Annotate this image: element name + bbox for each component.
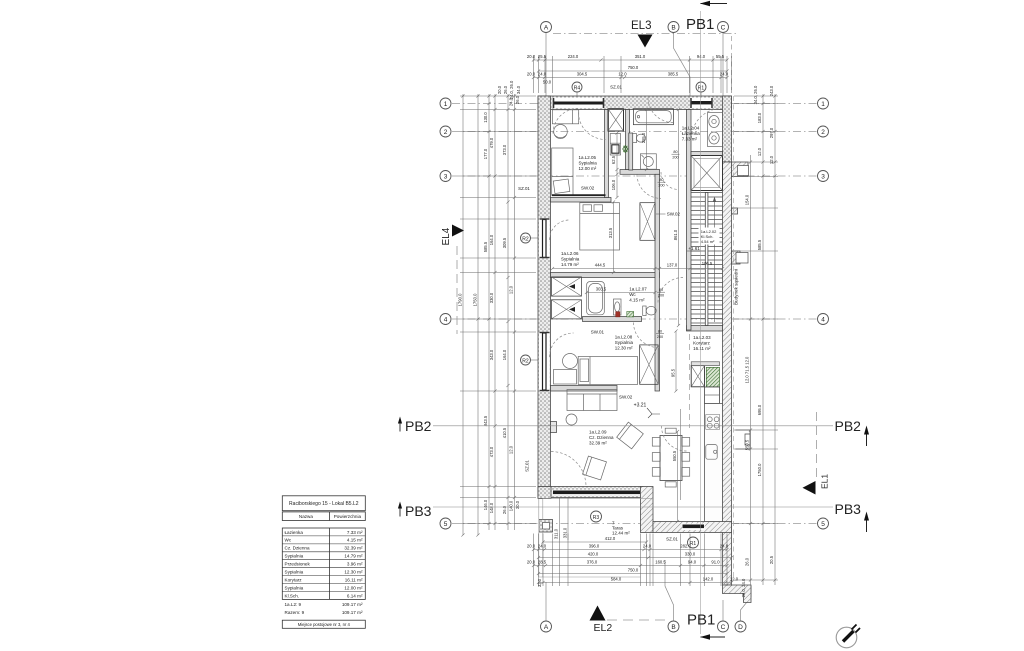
window top W (bedroom05) [553, 98, 605, 109]
svg-text:55.5: 55.5 [716, 54, 725, 59]
svg-text:351.0: 351.0 [635, 54, 646, 59]
svg-text:26.0: 26.0 [515, 95, 520, 104]
svg-text:164.0: 164.0 [502, 349, 507, 360]
axis row 1 line [452, 103, 817, 105]
elevator shaft [691, 156, 723, 191]
basin bathroom 2 [709, 132, 719, 144]
svg-text:C: C [721, 24, 726, 31]
svg-text:Kl.Sch.: Kl.Sch. [285, 593, 300, 598]
dim chain bottom 2 [534, 549, 728, 551]
svg-text:7.33 m²: 7.33 m² [347, 530, 363, 535]
section line PB1 [700, 11, 702, 634]
window swing R2a [550, 220, 570, 240]
window left R2 #1 [539, 219, 550, 259]
svg-text:1a.L2.08: 1a.L2.08 [615, 335, 633, 340]
svg-text:62.5: 62.5 [611, 155, 616, 164]
leader col C bottom [722, 600, 724, 621]
bubble col D bottom [735, 621, 746, 632]
bubble col B top [668, 22, 679, 33]
LABELS [561, 126, 720, 536]
leader col A top [545, 33, 547, 97]
svg-text:3.96 m²: 3.96 m² [347, 562, 363, 567]
svg-text:5: 5 [444, 521, 448, 528]
svg-text:PB1: PB1 [686, 16, 714, 33]
svg-text:148.0: 148.0 [489, 502, 494, 513]
WALLS [538, 96, 751, 603]
washbasin wc [614, 299, 622, 315]
svg-text:154.0: 154.0 [745, 194, 750, 205]
svg-text:95.5: 95.5 [670, 368, 675, 377]
svg-text:142.0: 142.0 [703, 577, 714, 582]
svg-text:695.0: 695.0 [757, 404, 762, 415]
svg-text:20.0: 20.0 [527, 544, 536, 549]
axis EL2 dashed [607, 619, 666, 621]
svg-text:R1: R1 [698, 85, 705, 91]
table title box [282, 496, 365, 511]
svg-text:PB3: PB3 [405, 503, 432, 519]
svg-text:200: 200 [657, 335, 663, 339]
armchair 1 [617, 422, 644, 449]
dim chain top 3 [534, 77, 728, 79]
interior walls [551, 110, 723, 392]
dim chain left A [462, 94, 464, 535]
door arc living [662, 426, 687, 451]
bed05 desk [552, 110, 578, 124]
svg-text:550.5: 550.5 [745, 439, 750, 450]
dining chair bottom [665, 482, 676, 487]
svg-text:EL1: EL1 [820, 474, 830, 489]
svg-text:14.79 m²: 14.79 m² [344, 554, 363, 559]
window swing living [551, 452, 586, 487]
svg-text:25.5: 25.5 [538, 54, 547, 59]
bubble col C top [718, 22, 729, 33]
dim 550.5 line [677, 432, 679, 522]
dim 444.5 line [553, 268, 723, 270]
window top R1 (bathroom) [691, 98, 714, 109]
svg-text:20.0: 20.0 [527, 54, 536, 59]
wardrobe SW01 top [551, 277, 581, 296]
bed05 bed [552, 148, 573, 195]
svg-text:376.0: 376.0 [587, 560, 598, 565]
kitchen fridge box [705, 387, 720, 404]
svg-text:410.5: 410.5 [502, 427, 507, 438]
exterior right wall lower (neighbour side) [723, 162, 732, 585]
door arc bed08 [634, 323, 659, 348]
dim 95.5 line [675, 331, 677, 391]
wall stairwell vertical [687, 110, 692, 331]
bubble R4 top [572, 82, 582, 92]
svg-text:1a.L2.07: 1a.L2.07 [629, 287, 647, 292]
window swing bathroom R1 [692, 109, 722, 139]
svg-text:4: 4 [444, 316, 448, 323]
svg-text:B: B [671, 624, 675, 631]
leader col D bottom [741, 586, 752, 621]
kitchenette unit [610, 134, 620, 156]
svg-text:C: C [721, 624, 726, 631]
svg-text:1a.L2.04: 1a.L2.04 [682, 126, 700, 131]
svg-text:303.5: 303.5 [596, 287, 607, 292]
svg-text:32.39 m²: 32.39 m² [589, 441, 607, 446]
svg-text:80: 80 [659, 288, 663, 292]
svg-text:1a.L2.06: 1a.L2.06 [561, 251, 579, 256]
svg-text:Łazienka: Łazienka [682, 131, 701, 136]
bubble R2 window2 [521, 355, 531, 365]
svg-text:309.5: 309.5 [502, 237, 507, 248]
plant hall [623, 145, 628, 152]
svg-text:479.0: 479.0 [489, 137, 494, 148]
dim chain right B [762, 94, 764, 585]
closet corridor X [691, 366, 704, 387]
leader col B top [674, 33, 691, 97]
FURNITURE [551, 109, 722, 522]
svg-text:137.0: 137.0 [667, 263, 678, 268]
terrace slab outline [539, 498, 653, 577]
dining chair top [665, 428, 676, 433]
svg-text:A: A [544, 624, 549, 631]
svg-text:Sypialnia: Sypialnia [579, 161, 598, 166]
svg-text:EL4: EL4 [441, 227, 452, 245]
svg-text:330.0: 330.0 [685, 552, 696, 557]
wardrobe front bed05 [552, 194, 606, 196]
radiator green [627, 312, 634, 317]
svg-text:Powierzchnia: Powierzchnia [334, 514, 362, 519]
svg-text:1a.L2: 9: 1a.L2: 9 [285, 602, 302, 607]
svg-text:2: 2 [821, 129, 825, 136]
dim chain top 1 [534, 59, 728, 61]
svg-text:16.11 m²: 16.11 m² [345, 577, 363, 582]
leader R2a [531, 237, 543, 239]
svg-text:R2: R2 [522, 236, 529, 242]
svg-text:160.5: 160.5 [655, 560, 666, 565]
dim chain bottom 3 [539, 557, 732, 559]
svg-text:Miejsce postojowe nr 3, nr 4: Miejsce postojowe nr 3, nr 4 [298, 622, 351, 627]
svg-text:Sypialnia: Sypialnia [285, 554, 304, 559]
svg-text:EL2: EL2 [594, 622, 613, 634]
sink kitchen [706, 445, 717, 460]
AXES [452, 34, 817, 621]
svg-text:1790.0: 1790.0 [458, 293, 463, 306]
svg-text:313.5: 313.5 [608, 227, 613, 238]
svg-text:109.17 m²: 109.17 m² [342, 602, 363, 607]
svg-text:1a.L2.03: 1a.L2.03 [693, 335, 711, 340]
dining chairs right [682, 438, 690, 447]
svg-text:Nazwa: Nazwa [299, 514, 313, 519]
svg-text:PB2: PB2 [405, 418, 432, 434]
svg-text:3: 3 [444, 173, 448, 180]
basin bathroom 1 [708, 113, 723, 147]
bottom-right exterior wall [653, 522, 732, 533]
dim chain left C [488, 94, 490, 530]
bed06 [580, 203, 620, 250]
svg-text:Sypialnia: Sypialnia [561, 257, 580, 262]
section line PB3 [433, 506, 833, 508]
svg-text:412.0: 412.0 [605, 536, 616, 541]
svg-text:R1: R1 [690, 541, 697, 547]
window left R2 #2 [539, 332, 550, 391]
svg-text:SZ.01: SZ.01 [518, 186, 530, 191]
svg-text:Wc: Wc [629, 292, 636, 297]
exterior top wall [538, 96, 732, 110]
neighbour wall stub 2 [732, 208, 738, 214]
svg-text:473.0: 473.0 [489, 446, 494, 457]
bubble row 2 left [440, 126, 451, 137]
svg-text:80: 80 [658, 330, 662, 334]
svg-text:12.0: 12.0 [509, 445, 514, 454]
neighbour stub 3 box [736, 253, 748, 264]
svg-text:94.0: 94.0 [688, 560, 697, 565]
axis row 2 line [452, 131, 817, 133]
washer [640, 154, 656, 169]
svg-text:1a.L2.05: 1a.L2.05 [579, 155, 597, 160]
svg-text:200: 200 [658, 294, 664, 298]
svg-text:20.0: 20.0 [527, 72, 536, 77]
neighbour stub 1 box [738, 166, 749, 176]
burners [707, 417, 712, 422]
svg-text:14.79 m²: 14.79 m² [561, 262, 579, 267]
column at terrace corner [539, 520, 553, 533]
dim chain left B [477, 94, 479, 535]
svg-text:R4: R4 [574, 85, 581, 91]
svg-text:+1.61: +1.61 [688, 246, 700, 251]
svg-text:Sypialnia: Sypialnia [615, 340, 634, 345]
bottom-left exterior wall (living room) [538, 487, 643, 498]
wardrobe bed08 [640, 345, 659, 384]
svg-text:20.5: 20.5 [769, 555, 774, 564]
door arc bathroom [661, 172, 679, 190]
svg-text:585.5: 585.5 [483, 241, 488, 252]
table data box [282, 528, 365, 599]
dim chain bottom 6 [539, 582, 732, 584]
svg-text:D: D [738, 624, 743, 631]
bed08 side table [554, 370, 577, 385]
axis row 3 line [452, 175, 817, 177]
wardrobe SW01 bottom [551, 300, 581, 319]
DOORS [550, 98, 722, 487]
svg-text:584.0: 584.0 [611, 577, 622, 582]
neighbour wall bottom corner [723, 585, 752, 603]
axis row 4 line [452, 318, 817, 320]
leader col B bottom [665, 560, 674, 621]
svg-text:26.0: 26.0 [745, 557, 750, 566]
svg-text:304.5: 304.5 [577, 72, 588, 77]
label klatka [699, 228, 720, 245]
svg-text:130.0: 130.0 [483, 112, 488, 123]
svg-text:12.0 71.5 12.0: 12.0 71.5 12.0 [745, 356, 750, 383]
svg-text:444.5: 444.5 [595, 263, 606, 268]
svg-text:861.0: 861.0 [673, 229, 678, 240]
svg-text:32.0: 32.0 [537, 578, 542, 587]
svg-text:24.0: 24.0 [643, 544, 652, 549]
leader R4 [576, 92, 578, 101]
svg-text:177.0: 177.0 [483, 148, 488, 159]
svg-text:B: B [671, 24, 675, 31]
svg-text:282.0: 282.0 [680, 544, 691, 549]
svg-text:SW.02: SW.02 [619, 395, 633, 400]
svg-text:R2: R2 [522, 358, 529, 364]
dim chain left E [507, 94, 509, 530]
wall hall/bath vertical [626, 110, 630, 170]
bubble R1 bottom [688, 537, 699, 548]
bubble R2 window1 [521, 233, 531, 243]
neighbour boundary dashed [733, 96, 735, 580]
bubble row 5 left [440, 518, 451, 529]
svg-text:12.0: 12.0 [618, 72, 627, 77]
svg-text:24.0: 24.0 [720, 544, 729, 549]
radiator red [616, 312, 620, 317]
svg-text:843.5: 843.5 [483, 415, 488, 426]
bathtub [633, 109, 673, 125]
bubble row 2 right [818, 126, 829, 137]
svg-text:224.0: 224.0 [568, 54, 579, 59]
svg-text:EL3: EL3 [631, 20, 651, 32]
svg-text:1750.0: 1750.0 [757, 463, 762, 476]
door arc entry [648, 98, 673, 123]
neighbour stub 4 box [736, 430, 751, 449]
svg-text:373.0: 373.0 [502, 144, 507, 155]
leader col A bottom [545, 582, 547, 621]
wall washer nook [629, 133, 633, 170]
svg-text:R3: R3 [593, 515, 600, 521]
svg-text:26.0, 24.0: 26.0, 24.0 [741, 578, 746, 597]
kitchen appliance green [706, 367, 719, 386]
bubble row 1 left [440, 98, 451, 109]
axis top A-B-C line [553, 33, 738, 35]
svg-text:164.0: 164.0 [489, 234, 494, 245]
svg-text:PB3: PB3 [835, 501, 862, 517]
shower wc [587, 282, 605, 315]
toilet wc [643, 306, 646, 316]
bubble row 5 right [818, 518, 829, 529]
svg-text:SW.01: SW.01 [591, 330, 605, 335]
svg-text:34.0: 34.0 [516, 85, 521, 94]
wardrobe bed06 [640, 203, 655, 241]
svg-text:183.0: 183.0 [757, 112, 762, 123]
left wall pilaster [551, 422, 557, 433]
wall hall/bed06 nook [620, 170, 660, 175]
svg-text:4.15 m²: 4.15 m² [347, 538, 363, 543]
svg-text:12.00 m²: 12.00 m² [579, 166, 597, 171]
svg-text:12.0: 12.0 [730, 577, 739, 582]
svg-text:80: 80 [673, 150, 677, 154]
top witness lines [533, 56, 535, 93]
svg-text:PB1: PB1 [687, 612, 715, 629]
neighbour wall stub 3 [732, 251, 741, 264]
svg-text:Raciborskiego 15 - Lokal B5.L2: Raciborskiego 15 - Lokal B5.L2 [289, 501, 359, 507]
stair center rail [705, 193, 708, 326]
side table round [566, 414, 577, 425]
svg-text:12.30 m²: 12.30 m² [615, 346, 633, 351]
STAIRS [691, 156, 723, 326]
svg-text:12.0: 12.0 [509, 285, 514, 294]
dim chain right A [750, 155, 752, 585]
svg-text:SW.02: SW.02 [581, 186, 595, 191]
svg-text:12.30 m²: 12.30 m² [344, 570, 363, 575]
svg-text:30.0: 30.0 [515, 500, 520, 509]
dim chain left D [494, 94, 496, 530]
kitchen counter [705, 404, 723, 522]
svg-text:200: 200 [672, 156, 678, 160]
svg-text:91.0: 91.0 [711, 560, 720, 565]
svg-text:12.0: 12.0 [769, 155, 774, 164]
svg-text:12.00 m²: 12.00 m² [344, 585, 363, 590]
svg-text:50.0: 50.0 [543, 80, 552, 85]
svg-text:420.0: 420.0 [588, 552, 599, 557]
svg-text:1: 1 [821, 101, 825, 108]
closet top band [691, 362, 719, 366]
svg-text:SZ.01: SZ.01 [666, 537, 678, 542]
dim chain top 2 [539, 70, 728, 72]
svg-text:24.0, 26.0: 24.0, 26.0 [509, 80, 514, 99]
north compass [836, 627, 857, 648]
door arc hall [637, 174, 661, 198]
window swing R2b [550, 333, 574, 357]
door arc wc [658, 278, 683, 303]
window bottom (living room) [553, 490, 641, 496]
witness x=680.5 [680, 409, 682, 500]
svg-text:24.0: 24.0 [720, 72, 729, 77]
svg-text:330.0: 330.0 [489, 292, 494, 303]
bubble col C bottom [718, 621, 729, 632]
witness terrace 311/331 [558, 498, 560, 540]
dining table [660, 436, 682, 481]
axis EL4 dashed [456, 246, 458, 334]
wall wc bottom [583, 317, 642, 322]
svg-text:Korytarz: Korytarz [285, 577, 303, 582]
bed08 [578, 357, 637, 385]
svg-text:385.5: 385.5 [668, 72, 679, 77]
svg-text:6.14 m²: 6.14 m² [347, 593, 363, 598]
wall stairs bottom [687, 326, 723, 332]
svg-text:5: 5 [821, 521, 825, 528]
dim 303.5 line [587, 292, 656, 294]
bubble R3 terrace [591, 511, 602, 522]
corridor dashed boundary [689, 334, 691, 428]
corner block bottom-left [538, 487, 551, 499]
svg-text:297.0: 297.0 [769, 127, 774, 138]
svg-text:SZ.01: SZ.01 [525, 460, 530, 472]
stair walk line [714, 198, 716, 322]
bubble R1 top [696, 82, 706, 92]
svg-text:A: A [544, 24, 549, 31]
svg-text:Wc: Wc [285, 538, 292, 543]
dining chairs left [652, 438, 660, 447]
dim 313.5 line [613, 202, 615, 273]
axis row 5 line [452, 523, 817, 525]
svg-text:311.0: 311.0 [554, 528, 559, 539]
bed05 chair [554, 125, 568, 139]
svg-text:109.17 m²: 109.17 m² [342, 610, 363, 615]
svg-text:26.0: 26.0 [502, 505, 507, 514]
svg-text:+3.21: +3.21 [634, 403, 647, 409]
svg-text:34.0, 26.0: 34.0, 26.0 [753, 85, 758, 104]
svg-text:7.33 m²: 7.33 m² [682, 137, 698, 142]
wall bed05/hall vertical [605, 110, 609, 198]
svg-text:PB2: PB2 [835, 418, 862, 434]
svg-text:550.5: 550.5 [672, 450, 677, 461]
svg-text:750.0: 750.0 [628, 568, 639, 573]
svg-text:106.0: 106.0 [611, 179, 616, 190]
axis EL1 dashed [816, 412, 818, 477]
dim chain bottom 4 [534, 565, 728, 567]
svg-text:SZ.01: SZ.01 [610, 85, 622, 90]
svg-text:SW.02: SW.02 [667, 212, 681, 217]
svg-text:343.0: 343.0 [489, 349, 494, 360]
TABLE [282, 496, 365, 629]
bubble row 3 right [818, 171, 829, 182]
wall shaft top [691, 152, 723, 156]
svg-text:24.0: 24.0 [538, 72, 547, 77]
bubble col B bottom [668, 621, 679, 632]
